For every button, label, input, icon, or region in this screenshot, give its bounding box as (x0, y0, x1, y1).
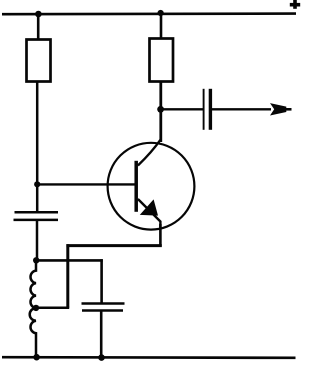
wire: R2 bottom to transistor collector (159, 82, 162, 143)
node: junction dot base node (34, 181, 40, 187)
resistor R2 (150, 39, 174, 82)
wire: feedback horizontal to emitter (66, 244, 161, 247)
wire: bottom ground rail (2, 356, 296, 359)
node: junction dot coil tap (33, 305, 39, 311)
inductor L1 (tapped coil) (30, 258, 36, 358)
wire: emitter drop (159, 224, 162, 247)
node: junction dot collector / output (157, 106, 164, 113)
wire: coil tap to feedback riser (35, 306, 69, 309)
capacitor C3 (top plate) (82, 302, 125, 305)
wire: R1 bottom down to capacitor C1 (36, 82, 39, 213)
capacitor C3 (bottom plate) (82, 309, 123, 312)
transistor Q1 (circle) (108, 143, 195, 230)
wire: base wire to transistor (36, 183, 136, 185)
transistor Q1 emitter arrowhead (140, 199, 158, 215)
node A: junction dot tank top (33, 257, 39, 263)
wire: C3 bottom plate to ground rail (100, 311, 103, 359)
resistor R1 (27, 40, 51, 82)
capacitor C1 (top plate) (15, 211, 59, 214)
wire: output wire to C2 (159, 108, 203, 110)
node: junction dot C3 / ground rail (98, 354, 105, 361)
capacitor C2 (right plate) (209, 89, 212, 130)
output arrow (270, 103, 286, 115)
wire: rail to R1 top (37, 13, 40, 39)
node: junction dot top rail / R1 (35, 11, 42, 18)
power terminal + (290, 0, 300, 9)
transistor Q1 emitter stroke (138, 199, 161, 228)
transistor Q1 collector stroke (138, 140, 161, 166)
wire: down to C3 top plate (100, 259, 103, 303)
capacitor C2 (left plate) (203, 89, 205, 130)
wire: C2 to output arrow (212, 108, 271, 110)
wire: node A horizontal to C3 branch (35, 259, 103, 262)
wire: C1 to tank node A (36, 220, 39, 261)
transistor Q1 base bar (134, 161, 138, 212)
wire: top supply rail (2, 12, 296, 15)
node: junction dot top rail / R2 (158, 10, 164, 16)
wire: rail to R2 top (160, 12, 163, 39)
wire: output arrow stub (282, 108, 292, 111)
wire: feedback riser vertical (66, 244, 69, 308)
node: junction dot coil bottom / ground rail (33, 354, 40, 361)
capacitor C1 (bottom plate) (14, 219, 59, 222)
